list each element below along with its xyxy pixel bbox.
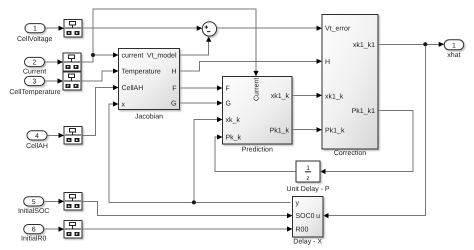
svg-text:1: 1: [306, 165, 310, 172]
svg-text:Vt_error: Vt_error: [325, 26, 351, 33]
svg-text:6: 6: [32, 227, 36, 234]
svg-text:5: 5: [32, 199, 36, 206]
svg-text:InitialR0: InitialR0: [21, 235, 46, 243]
svg-text:Pk1_k1: Pk1_k1: [352, 107, 375, 115]
svg-text:current: current: [122, 53, 144, 60]
svg-text:Delay - X: Delay - X: [293, 238, 322, 246]
svg-text:Prediction: Prediction: [242, 146, 273, 154]
svg-text:xhat: xhat: [447, 51, 460, 59]
svg-text:Vt_model: Vt_model: [147, 52, 177, 60]
svg-text:Jacobian: Jacobian: [135, 112, 163, 120]
svg-text:3: 3: [33, 79, 37, 86]
svg-text:xk1_k1: xk1_k1: [353, 41, 375, 49]
svg-text:CellVoltage: CellVoltage: [17, 35, 53, 43]
svg-text:Current: Current: [23, 69, 46, 76]
svg-text:u: u: [316, 213, 320, 220]
svg-text:Temperature: Temperature: [122, 69, 161, 76]
svg-text:R00: R00: [296, 227, 309, 234]
svg-text:z: z: [306, 175, 309, 182]
svg-text:1: 1: [452, 42, 456, 49]
svg-text:1: 1: [33, 26, 37, 33]
svg-text:H: H: [171, 69, 176, 76]
svg-text:Pk_k: Pk_k: [226, 134, 242, 142]
svg-text:H: H: [325, 59, 330, 66]
svg-text:Pk1_k: Pk1_k: [270, 126, 290, 134]
svg-text:F: F: [172, 86, 176, 93]
svg-text:Correction: Correction: [334, 149, 366, 157]
svg-text:F: F: [226, 86, 230, 93]
svg-text:CellAH: CellAH: [122, 84, 144, 92]
svg-text:SOC0: SOC0: [296, 213, 315, 220]
svg-text:CellAH: CellAH: [26, 142, 48, 150]
svg-text:CellTemperature: CellTemperature: [9, 88, 60, 96]
svg-text:y: y: [296, 200, 300, 207]
svg-text:InitialSOC: InitialSOC: [18, 207, 50, 215]
svg-text:x: x: [122, 101, 126, 108]
svg-text:Current: Current: [254, 78, 261, 101]
svg-text:xk1_k: xk1_k: [325, 93, 344, 101]
svg-text:Unit Delay - P: Unit Delay - P: [286, 185, 330, 193]
svg-text:2: 2: [33, 60, 37, 67]
svg-text:xk_k: xk_k: [226, 116, 241, 124]
svg-text:G: G: [226, 101, 231, 108]
svg-text:G: G: [171, 101, 176, 108]
svg-text:xk1_k: xk1_k: [271, 92, 290, 100]
svg-text:Pk1_k: Pk1_k: [325, 126, 345, 134]
svg-text:4: 4: [35, 133, 39, 140]
